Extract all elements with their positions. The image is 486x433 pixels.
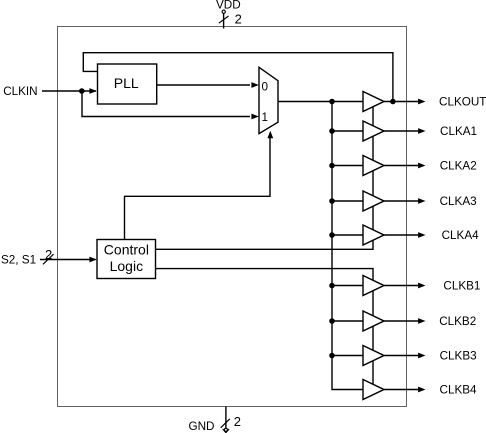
mux (PLL / bypass select): [259, 67, 278, 133]
buffer CLKA2: [363, 156, 384, 176]
svg-text:GND: GND: [189, 420, 215, 433]
buffer CLKOUT: [363, 92, 384, 112]
wire: CLKIN input to PLL ref: [42, 90, 96, 92]
buffer CLKA1: [363, 121, 384, 141]
wire: bus to CLKB3 buffer input: [332, 355, 363, 357]
svg-text:0: 0: [262, 81, 269, 94]
svg-text:CLKA2: CLKA2: [440, 160, 477, 173]
wire: bus to CLKA2 buffer input: [332, 165, 363, 167]
wire: feedback CLKOUT to PLL FB input: [83, 53, 393, 102]
junction: bus node CLKB2: [329, 318, 335, 324]
svg-text:VDD: VDD: [216, 0, 241, 12]
wire: CLKB3 buffer output through boundary: [384, 355, 420, 357]
wire: CLKA2 buffer output through boundary: [384, 165, 420, 167]
Control Logic block: [97, 240, 156, 279]
wire: bank A enable from Control Logic up behind A buffers: [156, 102, 374, 250]
arrowhead CLKA1 output: [418, 128, 425, 134]
wire: PLL output to mux input 0: [157, 84, 250, 86]
svg-text:CLKB2: CLKB2: [439, 315, 476, 328]
wire: CLKA3 buffer output through boundary: [384, 200, 420, 202]
PLL block: [98, 64, 157, 104]
arrowhead CLKB4 output: [418, 387, 425, 393]
arrowhead CLKOUT output: [418, 99, 425, 105]
wire: CLKB1 buffer output through boundary: [384, 285, 420, 287]
buffer CLKB2: [363, 311, 384, 331]
junction: CLKIN node: [79, 88, 85, 94]
arrowhead CLKA3 output: [418, 198, 425, 204]
wire: CLKA1 buffer output through boundary: [384, 130, 420, 132]
arrowhead CLKB3 output: [418, 353, 425, 359]
svg-text:PLL: PLL: [114, 75, 139, 91]
wire: S2,S1 input to Control Logic: [40, 259, 96, 261]
chip boundary box: [58, 27, 407, 407]
wire: bus to CLKB1 buffer input: [332, 285, 363, 287]
svg-text:CLKB4: CLKB4: [440, 384, 478, 397]
svg-text:CLKA3: CLKA3: [440, 195, 477, 208]
arrowhead CLKB2 output: [418, 318, 425, 324]
junction: bus node CLKA1: [329, 128, 335, 134]
wire: mux output to bus and CLKOUT buffer input: [278, 101, 363, 103]
wire: clock bus vertical with corner to CLKB4: [332, 102, 363, 390]
wire: CLKB2 buffer output through boundary: [384, 320, 420, 322]
wire: bus to CLKA3 buffer input: [332, 200, 363, 202]
buffer CLKB4: [363, 380, 384, 400]
arrowhead select into mux bottom: [267, 131, 273, 138]
svg-text:Control: Control: [104, 242, 149, 258]
junction: bus node CLKB3: [329, 353, 335, 359]
buffer CLKB1: [363, 276, 384, 296]
wire: bus to CLKA1 buffer input: [332, 130, 363, 132]
svg-text:CLKOUT: CLKOUT: [439, 96, 486, 109]
ground GND terminal: [189, 407, 241, 433]
wire: bus to CLKB2 buffer input: [332, 320, 363, 322]
junction: bus node CLKA3: [329, 198, 335, 204]
svg-text:CLKB3: CLKB3: [440, 350, 477, 363]
svg-text:2: 2: [234, 414, 241, 429]
arrowhead CLKA4 output: [418, 232, 425, 238]
junction: bus node CLKB1: [329, 283, 335, 289]
svg-text:S2, S1: S2, S1: [1, 254, 36, 267]
arrowhead CLKIN into PLL: [89, 88, 96, 94]
svg-text:CLKB1: CLKB1: [443, 280, 480, 293]
buffer CLKA3: [363, 191, 384, 211]
svg-text:Logic: Logic: [110, 258, 143, 274]
wire: bank B enable from Control Logic down behind B buffers: [156, 269, 374, 390]
arrowhead CLKB1 output: [418, 283, 425, 289]
buffer CLKA4: [363, 225, 384, 245]
svg-text:2: 2: [235, 12, 242, 27]
junction: bus node CLKA4: [329, 232, 335, 238]
svg-text:1: 1: [262, 111, 269, 124]
wire: bus to CLKA4 buffer input: [332, 234, 363, 236]
arrowhead bypass into mux pin 1: [251, 114, 258, 120]
junction: bus node CLKA2: [329, 163, 335, 169]
junction: bus top node: [329, 99, 335, 105]
slash: S2,S1 bus width mark: [43, 254, 54, 264]
wire: CLKA4 buffer output through boundary: [384, 234, 420, 236]
wire: CLKIN bypass to mux input 1: [82, 91, 250, 117]
buffer CLKB3: [363, 346, 384, 366]
arrowhead S2,S1 into Control Logic: [89, 257, 96, 263]
junction: CLKOUT feedback node: [390, 99, 396, 105]
wire: CLKOUT buffer output through boundary: [384, 101, 420, 103]
svg-text:CLKA1: CLKA1: [440, 125, 477, 138]
wire: Control Logic select to mux: [125, 137, 271, 240]
svg-text:CLKA4: CLKA4: [442, 229, 480, 242]
arrowhead PLL out into mux pin 0: [251, 82, 258, 88]
svg-text:2: 2: [45, 247, 52, 262]
power VDD terminal: [216, 0, 242, 28]
arrowhead CLKA2 output: [418, 163, 425, 169]
svg-text:CLKIN: CLKIN: [3, 85, 37, 98]
wire: CLKB4 buffer output through boundary: [384, 389, 420, 391]
